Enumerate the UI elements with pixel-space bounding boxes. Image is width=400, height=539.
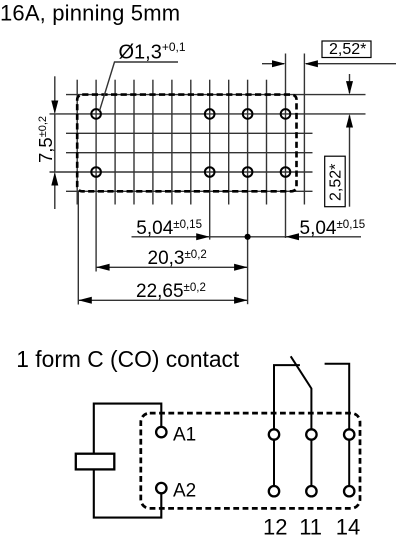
coil (rectangle) bbox=[76, 454, 115, 470]
dimension 20,3: line bbox=[96, 266, 248, 268]
svg-text:11: 11 bbox=[299, 515, 322, 539]
hole r2c3 bbox=[243, 167, 253, 177]
hole r1c3 bbox=[243, 109, 253, 119]
contact 12: pin circles and stem bbox=[269, 429, 279, 439]
dimension 20,3: arrows bbox=[96, 264, 110, 271]
contact 11 (common) with movable blade bbox=[291, 356, 312, 429]
PCB outline (dashed rectangle) bbox=[77, 95, 296, 192]
dimension 2,52* right side: boxed text (rotated) bbox=[325, 156, 346, 207]
svg-text:5,04±0,15: 5,04±0,15 bbox=[300, 218, 366, 239]
relay outline (dashed rounded box) bbox=[141, 413, 360, 508]
dimension chain 5,04 / 5,04: line bbox=[132, 236, 362, 238]
hole r2c1 bbox=[91, 167, 101, 177]
extension line: left PCB edge down to 22,65 dimension bbox=[77, 191, 79, 304]
dimension 2,52* top: boxed text bbox=[322, 41, 371, 58]
svg-text:2,52*: 2,52* bbox=[329, 41, 366, 58]
dimension 5,04 right: arrow bbox=[286, 233, 300, 240]
terminal A1 bbox=[156, 427, 166, 437]
dimension chain shared point (dot) bbox=[245, 234, 251, 240]
hole diameter label leader bbox=[100, 62, 179, 111]
coil wire: A1 stem, top wire, left wire down to coil bbox=[94, 404, 162, 454]
extension line: hole column 1 down to 20,3 dimension bbox=[95, 205, 97, 272]
dimension 22,65: arrows bbox=[78, 297, 92, 304]
hole r1c2 bbox=[205, 109, 215, 119]
terminal A2 bbox=[156, 483, 166, 493]
dimension 2,52* right side: arrows bbox=[346, 81, 353, 95]
pad grid raster: horizontal lines bbox=[50, 95, 366, 192]
svg-text:16A, pinning 5mm: 16A, pinning 5mm bbox=[0, 1, 180, 26]
svg-text:22,65±0,2: 22,65±0,2 bbox=[136, 281, 206, 302]
svg-text:A1: A1 bbox=[173, 425, 196, 446]
pad grid raster: vertical lines bbox=[77, 54, 304, 205]
hole r1c1 bbox=[91, 109, 101, 119]
extension line: hole column 4 down to 5,04 dimension bbox=[285, 205, 287, 239]
contact 12 (NC): top bar and stem bbox=[274, 365, 300, 430]
svg-text:14: 14 bbox=[336, 515, 360, 539]
dimension 7,5 left side: lines bbox=[54, 76, 56, 209]
dimension 2,52* top: arrows bbox=[272, 60, 286, 67]
dimension 2,52* top: lines bbox=[262, 63, 396, 65]
svg-text:1 form C (CO) contact: 1 form C (CO) contact bbox=[16, 346, 240, 372]
coil wire: coil bottom to bottom wire to A2 stem bbox=[94, 469, 162, 517]
dimension 5,04 left: arrow bbox=[196, 233, 210, 240]
svg-text:A2: A2 bbox=[173, 481, 196, 502]
svg-text:7,5±0,2: 7,5±0,2 bbox=[35, 116, 56, 163]
hole r2c2 bbox=[205, 167, 215, 177]
contact 14 (NO): top bar and stem bbox=[325, 364, 350, 430]
hole r1c4 bbox=[281, 109, 291, 119]
extension line: hole column 2 down to 5,04 dimension bbox=[209, 205, 211, 240]
dimension 22,65: line bbox=[78, 299, 247, 301]
svg-text:20,3±0,2: 20,3±0,2 bbox=[148, 248, 207, 269]
svg-text:12: 12 bbox=[263, 515, 287, 539]
svg-text:Ø1,3+0,1: Ø1,3+0,1 bbox=[119, 40, 186, 64]
svg-text:5,04±0,15: 5,04±0,15 bbox=[136, 218, 202, 239]
dimension 7,5 left side: arrows bbox=[51, 100, 58, 114]
hole r2c4 bbox=[281, 167, 291, 177]
svg-text:2,52*: 2,52* bbox=[328, 164, 345, 201]
dimension 2,52* right side: lines bbox=[349, 74, 351, 207]
extension line: hole column 3 down to 22,65 dimension bbox=[247, 205, 249, 305]
